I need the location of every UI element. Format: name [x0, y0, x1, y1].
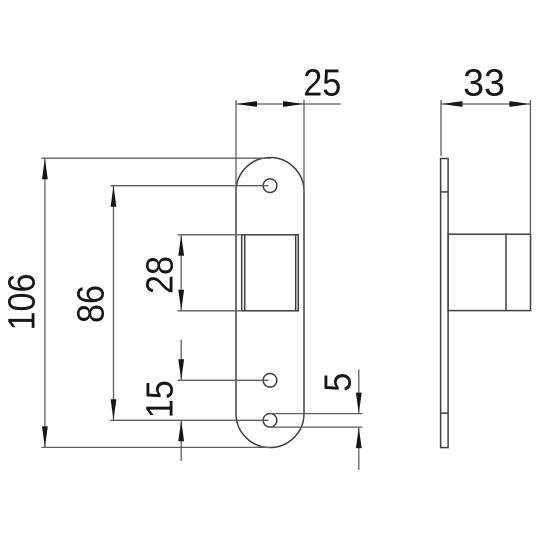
latch cutout inner right line — [295, 235, 297, 311]
dimension text 86 (rotated) — [69, 285, 112, 323]
arrowhead 86 top — [111, 186, 117, 207]
screw hole bottom — [263, 414, 277, 428]
dimension 5 line upper segment — [358, 369, 360, 413]
screw hole top — [263, 179, 277, 193]
arrowhead 5 bottom (outside, pointing up) — [356, 427, 362, 448]
dimension 25 extension line left — [235, 100, 237, 192]
arrowhead 106 bottom — [42, 426, 48, 447]
latch cutout inner left line — [244, 235, 246, 311]
dimension 15 line upper segment — [180, 340, 182, 381]
svg-text:33: 33 — [463, 62, 505, 104]
dimension 15 extension line top to middle hole — [178, 379, 269, 381]
dimension 106 extension line top — [42, 157, 272, 159]
dimension 106 extension line bottom — [42, 446, 272, 448]
dimension 28 line — [180, 235, 182, 311]
arrowhead 28 top — [178, 235, 184, 256]
side view plate strip — [441, 159, 449, 448]
latch cutout outer rectangle — [242, 235, 299, 311]
arrowhead 28 bottom — [178, 290, 184, 311]
dimension text 15 (rotated) — [138, 380, 181, 418]
arrowhead 15 bottom (outside, pointing up) — [178, 420, 184, 441]
dimension text 33 — [463, 62, 505, 104]
side view strip tick upper — [441, 191, 449, 193]
svg-text:106: 106 — [0, 273, 43, 330]
svg-text:28: 28 — [138, 256, 181, 294]
dimension 5 extension line top tangent — [270, 413, 362, 415]
dimension 15 line lower segment — [180, 420, 182, 461]
dimension text 28 (rotated) — [138, 256, 181, 294]
dimension 25 extension line right — [303, 100, 305, 192]
dimension 28 extension line bottom — [178, 310, 242, 312]
dimension 33 extension line right — [529, 100, 531, 234]
arrowhead 15 top (outside, pointing down) — [178, 359, 184, 380]
dimension 5 line lower segment — [358, 427, 360, 470]
dimension text 106 (rotated) — [0, 273, 43, 330]
arrowhead 5 top (outside, pointing down) — [356, 393, 362, 414]
arrowhead 25 right — [283, 101, 304, 107]
svg-text:86: 86 — [69, 285, 112, 323]
side view strip tick lower — [441, 412, 449, 414]
dimension 86 line — [113, 186, 115, 421]
screw hole middle — [263, 374, 277, 388]
svg-text:25: 25 — [303, 61, 341, 104]
arrowhead 25 left — [236, 101, 257, 107]
dimension 25 line — [236, 103, 341, 105]
arrowhead 33 right — [509, 101, 530, 107]
plate outline front view — [236, 158, 304, 448]
dimension 86 extension line top — [110, 185, 268, 187]
dimension 106 line — [44, 158, 46, 447]
dimension text 5 (rotated) — [316, 373, 359, 392]
arrowhead 106 top — [42, 158, 48, 179]
dimension 33 line — [442, 103, 531, 105]
arrowhead 86 bottom — [111, 399, 117, 420]
svg-text:15: 15 — [138, 380, 181, 418]
dimension 28 extension line top — [178, 234, 242, 236]
side view latch box — [448, 234, 530, 310]
dimension 5 extension line bottom tangent — [270, 426, 362, 428]
arrowhead 33 left — [442, 101, 463, 107]
side view latch box inner line — [505, 234, 507, 310]
dimension 33 extension line left — [440, 100, 442, 156]
dimension text 25 — [303, 61, 341, 104]
svg-text:5: 5 — [316, 373, 359, 392]
dimension 15 extension line bottom to bottom hole — [110, 419, 268, 421]
